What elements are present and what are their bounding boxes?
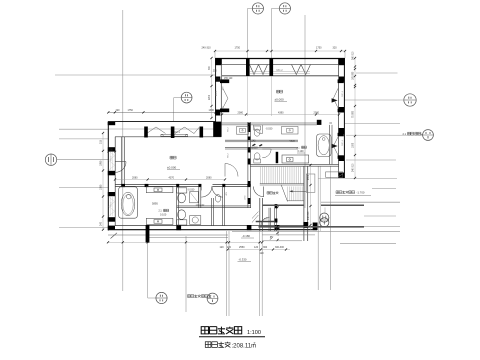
- svg-text:4390: 4390: [278, 111, 284, 114]
- column upper-right wall d: [338, 156, 344, 162]
- axis bubble 5/11 right side: [404, 94, 416, 106]
- interior wall horizontal main (y=185.5): [115, 184, 200, 186]
- column upper-right wall a: [339, 77, 344, 82]
- svg-text:2080: 2080: [238, 111, 244, 114]
- svg-text:±0.000: ±0.000: [275, 98, 284, 102]
- svg-text:MC-1: MC-1: [342, 139, 344, 145]
- window end block right a2: [338, 109, 344, 113]
- column left-wing top mid: [171, 127, 175, 139]
- grid line horizontal right y=216: [364, 215, 396, 217]
- svg-text:2550: 2550: [239, 246, 245, 249]
- svg-text:MC-2: MC-2: [174, 131, 181, 134]
- interior wall junction blocks: [121, 184, 125, 187]
- bathtub oval: [121, 192, 135, 216]
- grid line horizontal right y=123.5: [345, 123, 400, 125]
- interior wall stair right (x=305.8): [303, 166, 305, 241]
- left wing left wall inner face: [114, 137, 116, 226]
- svg-text:120: 120: [227, 246, 232, 249]
- stair landing door arc: [253, 187, 263, 197]
- window end block right a1: [338, 79, 344, 83]
- svg-text:120: 120: [220, 246, 225, 249]
- interior wall strip1 bottom (y=141): [225, 139, 298, 141]
- interior wall strip1 top (y=123.9): [221, 122, 316, 124]
- grid line vertical bottom-right b (x=330.5): [330, 166, 332, 290]
- axis bubble 3/10 bottom: [156, 292, 167, 303]
- toilet upper: [177, 188, 187, 193]
- bathtub outline: [119, 187, 138, 218]
- svg-text:420: 420: [116, 109, 121, 112]
- vanity cabinet upper: [146, 187, 173, 193]
- washer box lower: [190, 216, 201, 225]
- window end block right b2: [338, 155, 344, 159]
- window sill vlines la: [110, 151, 112, 170]
- svg-text:5895: 5895: [152, 202, 158, 206]
- svg-text:120(2)40: 120(2)40: [196, 204, 206, 206]
- door arc hall left: [225, 164, 238, 177]
- bubble leader G7: [324, 208, 326, 215]
- grid line horizontal right y=202: [321, 201, 400, 203]
- column left-wing top b: [200, 127, 204, 138]
- svg-text:165.885: 165.885: [353, 71, 355, 80]
- svg-text:-0.330: -0.330: [239, 258, 247, 262]
- grid line vertical axis 4 (x=186): [185, 236, 187, 312]
- svg-text:(2)320: (2)320: [251, 148, 258, 150]
- svg-text:1985: 1985: [100, 160, 103, 166]
- column top wall mid-right: [269, 58, 273, 76]
- upper wing right wall inner face: [338, 64, 340, 178]
- svg-text:75.885: 75.885: [353, 110, 355, 118]
- column left-wing top corner: [108, 122, 116, 126]
- grid line vertical courtyard wall right (x=261): [259, 231, 261, 316]
- svg-text:1085: 1085: [100, 184, 103, 190]
- axis bubble F/2 left wing: [181, 92, 192, 103]
- window MC-1 upper-left casement: [223, 89, 228, 99]
- strip2 toilet: [254, 159, 261, 163]
- shower box upper: [190, 192, 199, 203]
- svg-text:2.1: 2.1: [403, 132, 407, 136]
- dimension 300 small top: [216, 79, 222, 81]
- interior wall entry jamb (x=269.6): [268, 208, 270, 231]
- interior wall entry left (x=261): [259, 198, 261, 231]
- window MC-2 top-right zigzag: [292, 65, 302, 75]
- upper wing right exterior wall: [343, 58, 345, 178]
- svg-text:120: 120: [260, 252, 265, 255]
- stair landing text: [267, 192, 270, 195]
- dimension row top: [215, 50, 345, 52]
- terrace step thin upper: [321, 201, 400, 203]
- porch wall segment y=221.5: [256, 221, 276, 223]
- svg-text:1:100: 1:100: [247, 330, 261, 336]
- axis bubble pair G/7 bottom-right: [320, 213, 329, 222]
- column left-wing top a: [144, 127, 148, 138]
- level label -1.700 drain right: [336, 191, 339, 194]
- window MC-2 top-left zigzag: [250, 65, 259, 75]
- svg-text:1750: 1750: [316, 47, 322, 50]
- left wing top exterior wall: [108, 121, 216, 123]
- entry dim tick column: [276, 206, 278, 208]
- grid line vertical axis 7 (x=305): [304, 15, 306, 208]
- svg-text:MC-1: MC-1: [216, 90, 218, 96]
- grid line horizontal left y=227.4: [59, 226, 109, 228]
- column upper-right wall c: [338, 128, 344, 134]
- svg-text:155 120: 155 120: [224, 78, 233, 80]
- dimension row room BB width: [222, 114, 339, 116]
- svg-text:240-310: 240-310: [308, 211, 310, 220]
- grid line horizontal left y=187.5: [59, 187, 109, 189]
- svg-text:-0.030: -0.030: [188, 188, 195, 191]
- svg-text:1750: 1750: [128, 109, 134, 112]
- grid line horizontal axis F long (y=75): [55, 74, 215, 76]
- terrace step thin lower: [364, 225, 400, 227]
- svg-text:-0.030: -0.030: [266, 128, 273, 131]
- porch bench rect: [326, 172, 343, 177]
- bathtub faucet: [127, 194, 132, 199]
- drain callout text bottom: [188, 295, 191, 298]
- svg-text:0.100: 0.100: [298, 150, 305, 153]
- interior wall bath partition c (x=212.7): [211, 198, 213, 226]
- grid line horizontal right y=160: [346, 159, 396, 161]
- strip1 toilet: [254, 126, 261, 130]
- svg-text:1750: 1750: [235, 47, 241, 50]
- door arc left wall: [115, 162, 126, 173]
- column bottom b: [247, 225, 252, 230]
- strip2 door arc: [262, 149, 271, 158]
- grid line horizontal right y=243: [340, 242, 396, 244]
- left wing top wall inner face: [115, 136, 221, 138]
- svg-text:2080: 2080: [314, 111, 320, 114]
- small sink right: [215, 195, 220, 203]
- room label left wing: [170, 156, 173, 159]
- door arc entry: [261, 217, 270, 226]
- dimension column left wall: [102, 133, 104, 230]
- svg-text:360: 360: [263, 246, 268, 249]
- upper wing top wall inner line: [215, 64, 345, 66]
- svg-text:0.100: 0.100: [160, 213, 167, 216]
- column left-wall c: [108, 192, 115, 196]
- window MC-1 left-wall a zigzag: [109, 151, 115, 161]
- dimension 300 small left: [108, 151, 115, 153]
- dimension row left wing width: [115, 179, 225, 181]
- column left-wall a: [108, 147, 115, 151]
- svg-text:±0.000: ±0.000: [167, 165, 176, 169]
- grid line horizontal right y=188.5: [372, 188, 396, 190]
- porch step rect: [306, 174, 315, 192]
- svg-text:-1.700: -1.700: [357, 190, 365, 194]
- window MC-1 right-a casement: [333, 89, 338, 99]
- bathtub 2 vertical: [317, 134, 332, 157]
- window MC-2 left-wing a zigzag: [147, 127, 166, 134]
- room label BB upper: [277, 90, 280, 93]
- column upper-left wall b: [215, 110, 220, 116]
- column bottom a: [176, 225, 181, 230]
- grid line horizontal right y=178.8: [318, 178, 397, 180]
- bottom terrace edge line: [108, 234, 228, 236]
- extension lines interior dim top: [247, 76, 249, 116]
- svg-text:240: 240: [252, 139, 257, 142]
- vanity cabinet lower: [146, 218, 173, 224]
- upper wing top exterior wall: [215, 58, 345, 60]
- svg-text::208.11m: :208.11m: [232, 344, 257, 350]
- svg-text:1085: 1085: [353, 142, 355, 148]
- window MC-1 right-b casement: [333, 137, 338, 146]
- svg-text:-0.180: -0.180: [242, 234, 250, 238]
- grid line vertical axis 2 (x=122.8): [122, 10, 124, 291]
- column upper-right wall e: [338, 173, 344, 179]
- svg-text:240-310: 240-310: [353, 51, 355, 60]
- svg-text:240: 240: [100, 221, 103, 226]
- drain callout circle right: [423, 130, 434, 141]
- column top wall corner right: [338, 58, 345, 65]
- svg-text:240-310: 240-310: [353, 163, 355, 172]
- interior wall bath divider horizontal (y=206.8): [177, 205, 251, 207]
- dimension line bottom: [108, 241, 262, 243]
- stair treads and break line: [260, 167, 262, 184]
- corner check mark: [111, 233, 118, 239]
- subtitle area text: [205, 342, 211, 348]
- grid line horizontal left y=139: [59, 138, 109, 140]
- kitchen cabinet black bar: [276, 152, 279, 163]
- column bottom chimney: [146, 225, 150, 243]
- svg-text:200: 200: [213, 70, 218, 73]
- svg-text:300-306: 300-306: [275, 246, 284, 249]
- svg-text:2080: 2080: [206, 177, 212, 180]
- column hall-left wall blocks: [248, 123, 251, 133]
- svg-text:2550: 2550: [308, 174, 310, 180]
- svg-text:315: 315: [100, 139, 103, 144]
- dimension column stair right: [310, 165, 312, 230]
- bottom wall inner face: [115, 225, 308, 227]
- terrace step thick bar lower: [259, 226, 365, 228]
- window sill vlines lb: [110, 197, 112, 216]
- strip1 counter right: [282, 127, 299, 135]
- grid line vertical axis 6 top (x=271.5) from bubble: [271, 9, 273, 59]
- interior wall bath right vertical (x=330.6): [328, 125, 330, 164]
- svg-text:4370: 4370: [169, 177, 175, 180]
- dimension row left wing top: [108, 111, 215, 113]
- svg-text:320: 320: [333, 47, 338, 50]
- window sill lines top: [250, 71, 310, 73]
- column left-wing top right: [213, 122, 221, 137]
- interior wall entry right (x=275.6): [274, 208, 276, 231]
- interior wall hall left (x=249): [247, 122, 249, 208]
- axis bubble 2/11 top-right: [279, 3, 290, 14]
- grid line vertical bottom-right a (x=318.5): [317, 166, 319, 290]
- svg-text:120: 120: [254, 246, 259, 249]
- door arc bath1 double: [201, 186, 212, 197]
- grid line vertical axis 3 (x=147.7) to bubble: [147, 243, 149, 298]
- svg-text:MC-1: MC-1: [342, 90, 344, 96]
- column bottom c: [275, 225, 280, 230]
- drain callout circle bottom: [207, 293, 218, 304]
- bottom terrace edge line 2: [148, 236, 228, 238]
- grid line horizontal left y=129: [59, 128, 109, 130]
- axis bubble 1/10 top-left: [252, 3, 263, 14]
- column strip1 top block: [317, 120, 322, 125]
- column left-wall d: [108, 217, 115, 222]
- column entry wall blocks: [275, 204, 278, 208]
- upper wing left wall inner face: [220, 64, 222, 137]
- window MC-2 left-wing b zigzag: [175, 127, 199, 134]
- column left-wall corner bottom: [108, 226, 115, 230]
- grid line horizontal right y=135 drain leader: [346, 134, 423, 136]
- left wing left exterior wall: [107, 122, 109, 231]
- dimension column upper wing left: [211, 58, 213, 118]
- svg-text:240-310: 240-310: [202, 47, 212, 50]
- entry door circle: [270, 236, 272, 238]
- kitchen counter right: [282, 155, 309, 163]
- title underline: [199, 336, 265, 338]
- dimension column right wall: [354, 58, 356, 178]
- column left-wall b: [108, 171, 115, 176]
- entry bottom lines: [262, 234, 315, 236]
- interior wall bath partition a (x=177.5): [176, 186, 178, 225]
- svg-text:2200: 2200: [209, 94, 211, 100]
- svg-text:MC-2: MC-2: [277, 69, 284, 72]
- upper wing left exterior wall: [215, 58, 217, 122]
- svg-text:2080: 2080: [132, 177, 138, 180]
- terrace step thick bar upper: [263, 204, 304, 206]
- window end block right b1: [338, 133, 344, 137]
- grid line vertical axis 5 top (x=247.5) from bubble: [247, 9, 249, 59]
- window end block upper-left a: [220, 79, 229, 83]
- column upper-right wall b: [338, 107, 344, 113]
- column bottom corner right: [313, 223, 318, 231]
- window sill pipe left wing: [161, 134, 189, 136]
- grid line horizontal axis E (y=160) with bubble leader: [57, 159, 109, 161]
- column upper-left wall a: [215, 77, 220, 82]
- left wing top wall mid line: [108, 128, 215, 130]
- toilet lower: [177, 220, 187, 225]
- grid line horizontal right y=231: [232, 230, 400, 232]
- strip1 cabinet left: [237, 127, 249, 135]
- dimension row bottom center: [227, 249, 290, 251]
- svg-text:2: 2: [254, 342, 256, 346]
- interior wall bath partition b (x=199.8): [198, 186, 200, 207]
- interior wall vertical near left wall: [121, 137, 123, 185]
- interior wall bath partition d (x=223.7): [222, 186, 224, 225]
- entry ramp diagonal hatch: [252, 212, 258, 219]
- title text: [201, 327, 208, 334]
- axis bubble E left side: [45, 154, 56, 165]
- upper wing top wall inner face: [222, 75, 339, 77]
- interior wall strip2 top (y=148): [225, 146, 298, 148]
- strip1 door arc: [254, 125, 263, 134]
- window end block upper-left b: [220, 109, 229, 113]
- column top wall corner left: [215, 58, 222, 65]
- grid line vertical courtyard wall left (x=227.8): [226, 231, 228, 316]
- svg-text:5695: 5695: [290, 140, 296, 143]
- interior wall stair hall top (y=165.2): [250, 163, 338, 165]
- window MC-1 left-wall b zigzag: [109, 197, 115, 207]
- bottom exterior wall: [108, 229, 317, 231]
- column top wall mid-left: [246, 58, 250, 76]
